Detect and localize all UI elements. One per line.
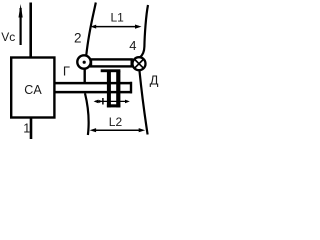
svg-text:Д: Д [150,72,159,87]
svg-text:L2: L2 [109,115,123,129]
svg-text:4: 4 [129,38,136,53]
svg-text:CA: CA [24,83,42,97]
svg-text:Г: Г [63,64,70,79]
svg-text:Vc: Vc [1,30,15,44]
svg-text:L1: L1 [111,11,125,25]
svg-text:2: 2 [74,31,82,46]
svg-text:1: 1 [23,122,30,136]
